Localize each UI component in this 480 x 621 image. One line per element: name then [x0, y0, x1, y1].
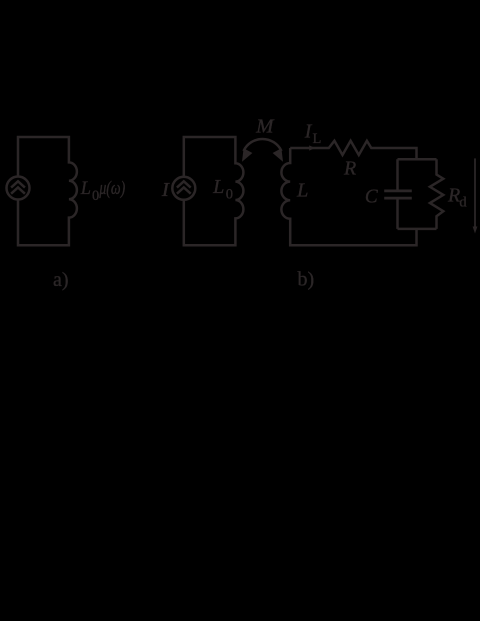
- svg-text:C: C: [365, 186, 378, 208]
- svg-text:I: I: [304, 120, 313, 142]
- svg-text:R: R: [447, 184, 460, 206]
- svg-text:L: L: [80, 179, 91, 199]
- svg-text:M: M: [255, 116, 275, 138]
- svg-text:0: 0: [92, 188, 99, 204]
- svg-text:b): b): [298, 269, 315, 291]
- svg-text:R: R: [343, 157, 356, 179]
- svg-text:d: d: [459, 195, 467, 211]
- svg-text:L: L: [212, 176, 224, 198]
- svg-text:I: I: [161, 179, 171, 201]
- svg-text:μ(ω): μ(ω): [99, 179, 126, 199]
- svg-text:a): a): [53, 269, 69, 291]
- svg-text:0: 0: [226, 186, 233, 202]
- svg-text:L: L: [296, 179, 308, 201]
- svg-text:L: L: [313, 131, 322, 147]
